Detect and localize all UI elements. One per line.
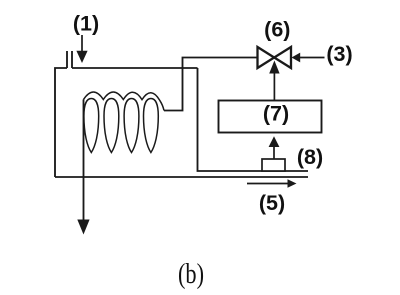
- coil loop 4: [144, 99, 159, 153]
- inlet stub right: [71, 51, 73, 68]
- wire: coil down-leg / outlet pipe: [83, 100, 85, 221]
- svg-text:(3): (3): [326, 42, 352, 66]
- arrow (3) head (points left into valve): [292, 53, 301, 63]
- valve V (6) right triangle: [274, 47, 291, 68]
- arrow (3) line: [300, 57, 325, 59]
- arrow from sensor (8) to box (7): head: [269, 136, 280, 147]
- box (7) controller: [219, 101, 322, 133]
- svg-text:(6): (6): [264, 18, 290, 42]
- coil loop 2: [104, 99, 119, 153]
- arrow from box (7) to valve: head: [269, 61, 279, 74]
- flow arrow (5) head: [288, 179, 297, 188]
- arrow from sensor (8) to box (7): line: [273, 147, 275, 159]
- coil (condenser coil arches): [84, 92, 165, 111]
- svg-text:(7): (7): [263, 102, 289, 126]
- svg-text:(1): (1): [73, 12, 99, 36]
- chamber box (vacuum chamber): [55, 68, 198, 177]
- chamber right edge turning into upper duct line: [198, 68, 309, 171]
- inlet arrow (1) line: [81, 35, 83, 52]
- arrow from box (7) to valve: line: [273, 73, 275, 101]
- outlet arrowhead (down): [77, 220, 89, 235]
- wire: pipe from chamber to valve: [164, 58, 258, 111]
- valve V (6) left triangle: [258, 47, 275, 68]
- flow arrow (5) line: [247, 183, 288, 185]
- svg-text:(8): (8): [297, 145, 323, 169]
- inlet arrow (1) head: [76, 51, 87, 63]
- sensor box (8): [262, 159, 285, 171]
- svg-text:(5): (5): [259, 191, 285, 215]
- chamber bottom edge / lower duct line: [55, 176, 308, 178]
- inlet stub left: [66, 51, 68, 68]
- svg-text:(b): (b): [178, 259, 204, 290]
- coil loop 3: [124, 99, 139, 153]
- coil loop 1: [84, 99, 99, 153]
